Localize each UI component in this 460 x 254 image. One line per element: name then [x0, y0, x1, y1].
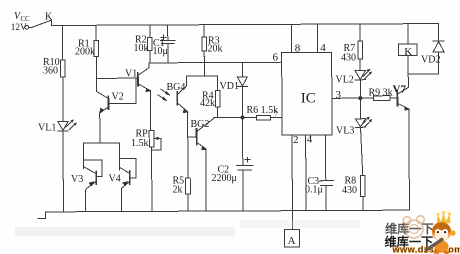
resistor R8: [360, 175, 365, 210]
wire V2 base link: [109, 78, 136, 103]
svg-text:4: 4: [307, 134, 313, 146]
resistor R4: [215, 76, 220, 118]
resistor R9: [373, 96, 397, 101]
diode VD1: [237, 62, 247, 117]
svg-text:A: A: [288, 235, 296, 247]
pin 8 wire: [290, 24, 292, 52]
pin 4 top wire: [316, 24, 318, 52]
LED VL3: [355, 98, 372, 175]
pin 4 bottom wire: [305, 135, 307, 210]
svg-text:12V: 12V: [11, 22, 27, 32]
svg-text:4: 4: [320, 42, 326, 54]
svg-text:VL2: VL2: [336, 75, 354, 86]
mascot logo: [424, 211, 456, 254]
resistor R3: [202, 25, 207, 76]
resistor R7: [358, 24, 363, 71]
diode VD2: [408, 24, 444, 75]
potentiometer RP: [149, 130, 161, 211]
svg-text:42k: 42k: [200, 98, 215, 109]
switch K blade: [29, 20, 52, 27]
Vcc source terminal: [25, 25, 29, 29]
svg-text:V4: V4: [109, 174, 121, 185]
capacitor C1: [161, 25, 176, 63]
svg-text:3: 3: [336, 89, 342, 101]
IC box: [282, 53, 332, 136]
svg-text:2k: 2k: [173, 185, 183, 196]
resistor R1: [94, 25, 99, 78]
transistor V4 group (bistable right): [100, 143, 136, 212]
svg-text:20k: 20k: [208, 44, 223, 55]
svg-text:10μ: 10μ: [153, 46, 168, 57]
svg-text:V3: V3: [71, 174, 83, 185]
svg-text:VL3: VL3: [336, 126, 354, 137]
svg-text:2: 2: [293, 134, 299, 146]
svg-text:VL1: VL1: [38, 123, 56, 134]
svg-text:2200μ: 2200μ: [212, 173, 237, 184]
resistor R2: [148, 25, 153, 63]
svg-text:R9 3k: R9 3k: [369, 88, 393, 99]
svg-text:0.1μ: 0.1μ: [305, 185, 323, 196]
node R6/C2/BG2 junction: [240, 115, 244, 119]
box A: [285, 230, 300, 248]
svg-text:10k: 10k: [134, 43, 149, 54]
relay K: [398, 24, 417, 74]
capacitor C2: [236, 117, 253, 210]
svg-text:R6 1.5k: R6 1.5k: [247, 105, 279, 116]
wire top rail: [52, 24, 439, 26]
wire upper bus (to pin 6): [149, 61, 281, 64]
wire V1 base line: [96, 77, 138, 79]
svg-text:1.5k: 1.5k: [131, 138, 149, 149]
svg-text:V2: V2: [112, 92, 124, 103]
svg-text:BG4: BG4: [167, 82, 186, 93]
LED VL2: [355, 69, 372, 98]
svg-text:IC: IC: [301, 91, 316, 107]
svg-text:8: 8: [295, 43, 301, 55]
wire BG4 collector bus: [187, 75, 218, 77]
transistor BG2: [188, 118, 215, 212]
svg-text:360: 360: [43, 66, 58, 77]
wire pin 3: [332, 97, 373, 99]
pin 2 wire to A: [291, 135, 293, 229]
svg-text:430: 430: [342, 185, 357, 196]
svg-text:VD1: VD1: [220, 81, 239, 92]
transistor V1: [138, 63, 152, 131]
node pin3/VL junction: [358, 96, 362, 100]
transistor V3 group (bistable left): [84, 143, 103, 212]
transistor V7: [397, 74, 410, 210]
wire bottom rail: [45, 210, 409, 212]
phototransistor BG4: [158, 76, 189, 137]
svg-text:VD2: VD2: [421, 55, 440, 66]
wire bottom-left step: [38, 212, 46, 219]
watermark ghost mascot: [403, 216, 424, 238]
svg-text:K: K: [45, 12, 53, 23]
svg-text:6: 6: [273, 52, 279, 64]
transistor V2: [96, 78, 108, 143]
svg-text:200k: 200k: [75, 47, 95, 58]
svg-text:K: K: [404, 46, 412, 58]
svg-text:V7: V7: [393, 83, 407, 95]
wire BG2 collector to node: [214, 117, 243, 119]
resistor R5: [185, 137, 190, 211]
capacitor C3: [319, 135, 333, 211]
svg-text:V1: V1: [125, 69, 137, 80]
svg-text:430: 430: [341, 53, 356, 64]
svg-text:BG2: BG2: [191, 119, 210, 130]
faint scan noise bands: [15, 227, 235, 236]
LED VL1: [58, 119, 77, 211]
resistor R6: [243, 115, 282, 120]
resistor R10: [60, 25, 65, 120]
